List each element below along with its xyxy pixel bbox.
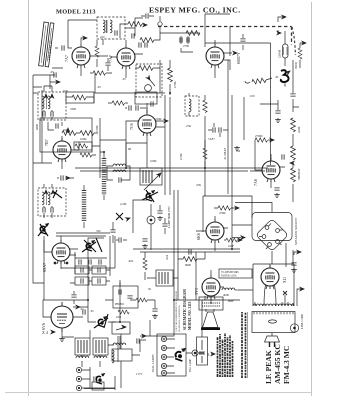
box around V8: [203, 196, 252, 232]
arrow into socket: [232, 237, 241, 239]
cap X: [283, 291, 287, 295]
coil box windings: [159, 272, 168, 284]
svg-text:7C6: 7C6: [129, 123, 134, 130]
speaker socket diamond: [256, 219, 289, 252]
resistor R4 vertical 39000: [298, 48, 302, 59]
capacitor C8: [187, 37, 189, 42]
capacitor C11: [129, 105, 131, 110]
bus pair y233: [56, 233, 110, 236]
wire R26: [96, 40, 98, 67]
vertical pair x174-178: [174, 190, 178, 300]
output transformer box T2b: [93, 338, 108, 355]
wire C34: [107, 58, 109, 71]
switch S3 blob center: [146, 191, 155, 202]
volume pot arrow: [146, 76, 151, 81]
ground G8: [152, 314, 158, 318]
capacitor C28: [94, 376, 96, 381]
cylinder inner: [284, 47, 288, 55]
svg-text:I.F. PEAK: I.F. PEAK: [264, 350, 273, 384]
IF can Z2 dashed right: [185, 96, 199, 116]
capacitor C27: [83, 309, 85, 314]
resistor R6: [72, 95, 86, 100]
arrow V4: [66, 128, 69, 132]
switch S5 blob bottom: [96, 374, 105, 385]
small circle top: [158, 22, 162, 26]
capacitor cluster C22: [99, 259, 101, 264]
svg-text:X 4: X 4: [42, 330, 48, 335]
page edge right: [311, 2, 313, 396]
wire top center: [120, 18, 160, 40]
wire V7: [255, 140, 285, 188]
wire V4 cluster: [48, 122, 98, 169]
tuning coil L4 hatched: [102, 158, 107, 195]
svg-text:.05: .05: [122, 77, 126, 81]
winding row below T2b: [94, 356, 107, 358]
capacitor C25: [291, 263, 296, 265]
wire caps V5: [125, 103, 147, 113]
capacitor C4: [139, 42, 141, 47]
svg-text:.01: .01: [80, 307, 84, 311]
loop antenna L1: [39, 22, 54, 67]
svg-text:47K: 47K: [196, 183, 202, 187]
resistor R14: [203, 100, 207, 113]
svg-text:6SA7: 6SA7: [42, 263, 47, 272]
ground G6: [59, 337, 65, 341]
OT windings: [202, 300, 220, 306]
capacitor C17: [282, 154, 284, 159]
capacitor C24: [142, 239, 147, 241]
wire T-osc: [95, 20, 135, 45]
X marks cluster: [116, 213, 123, 220]
trimmer caps inside 2: [81, 278, 83, 283]
wire tone: [121, 334, 140, 355]
arrow tuning R1: [143, 23, 147, 26]
wire plug: [271, 333, 273, 337]
wire lamps: [167, 339, 204, 373]
arrow V3: [233, 51, 237, 54]
wire socket right drops: [286, 243, 293, 267]
svg-text:LAMP TRIM 2700: LAMP TRIM 2700: [168, 206, 171, 228]
resistor R25: [203, 148, 207, 159]
resistor R26 vertical: [95, 46, 99, 57]
resistor R3: [186, 31, 200, 36]
small cap top center: [146, 13, 148, 18]
svg-text:220: 220: [100, 35, 105, 39]
socket pin ticks: [259, 224, 283, 250]
resistor R12 470K: [112, 101, 125, 105]
wire C23: [159, 205, 161, 210]
wires trimmer field: [70, 236, 110, 283]
svg-text:100: 100: [250, 94, 255, 98]
tube V6 6SA7: [52, 240, 70, 264]
svg-text:1MF: 1MF: [228, 244, 234, 248]
IF Z1 arrows: [44, 94, 47, 98]
wire C32: [57, 177, 74, 179]
junction dots: [87, 92, 233, 323]
box bottom small: [92, 382, 104, 390]
svg-text:LINE CORD: LINE CORD: [301, 314, 304, 329]
wire R19: [144, 252, 146, 280]
capacitor C33: [151, 101, 153, 106]
box trimmer row 3: [75, 277, 89, 285]
wire V10 V11: [211, 270, 253, 304]
svg-text:220MF: 220MF: [279, 49, 282, 58]
svg-text:7AF7: 7AF7: [208, 137, 215, 141]
tube V2 7A7 IF: [117, 45, 135, 69]
wire L6: [83, 185, 85, 228]
main wire bus J: [231, 195, 233, 249]
svg-text:1M: 1M: [236, 149, 241, 153]
resistor R10: [80, 153, 92, 157]
small arrows left: [56, 80, 60, 83]
wire V9 bottom: [62, 317, 83, 337]
bus y93: [33, 75, 55, 163]
capacitor C35: [189, 249, 191, 254]
svg-text:100K: 100K: [80, 137, 88, 141]
resistor R22 6800: [183, 257, 197, 262]
capacitor C18: [274, 188, 279, 190]
wire V5: [126, 107, 165, 143]
wire caps center: [208, 123, 228, 137]
IF Z3 wires: [44, 184, 52, 218]
main wire bus E: [61, 236, 115, 268]
resistor R17 vertical chain: [291, 146, 296, 160]
tuning coil L6 hatched: [82, 190, 87, 222]
wire R13: [169, 60, 171, 95]
svg-text:27K: 27K: [186, 124, 192, 128]
notes list block rotated: [218, 333, 233, 377]
resistor R19: [143, 258, 147, 270]
arrow cluster: [126, 216, 131, 221]
wire right top: [278, 30, 300, 68]
main wire bus B: [100, 140, 126, 152]
resistor R20: [218, 206, 231, 210]
capacitor C10: [54, 72, 56, 77]
switch S1 arms: [38, 224, 48, 236]
svg-text:AM: AM: [165, 255, 169, 260]
main wire bus H: [205, 168, 240, 300]
svg-text:NOTED ±10%: NOTED ±10%: [221, 275, 237, 278]
wire top right col: [292, 60, 294, 107]
tube V4 7B7: [53, 138, 71, 162]
main wire bus M: [84, 361, 121, 390]
capacitor C34: [105, 63, 110, 65]
long bus y168/171: [75, 168, 250, 171]
svg-text:4000: 4000: [223, 293, 230, 297]
svg-text:AM-455 KC: AM-455 KC: [273, 344, 282, 384]
IF Z1 wires: [44, 86, 52, 120]
AVC dashed bus: [158, 27, 292, 46]
wire V1 V2 plate link: [90, 55, 108, 57]
capacitor C3: [132, 33, 134, 38]
ground G4: [142, 244, 148, 248]
main wire bus G: [119, 280, 121, 349]
resistor R16 horizontal: [255, 138, 268, 142]
note box 5% resistors: [219, 269, 252, 278]
wire R25: [204, 140, 206, 168]
svg-text:SCHEMATIC DIAGRAM: SCHEMATIC DIAGRAM: [183, 289, 187, 330]
wire osc coil: [245, 78, 272, 83]
box trimmer row 4: [92, 277, 106, 285]
wire S4: [88, 300, 116, 322]
AC switch inner: [199, 340, 205, 363]
jack J2: [76, 376, 81, 381]
small circles pins V6: [54, 262, 56, 264]
svg-text:117V: 117V: [136, 372, 143, 376]
arrow R16: [270, 138, 274, 141]
switch S3 arms: [142, 190, 158, 202]
capacitor C15: [219, 127, 221, 132]
resistor R15 vertical: [291, 118, 296, 132]
svg-text:NO SIGNAL CONDITION: NO SIGNAL CONDITION: [178, 305, 181, 332]
variable capacitor tuning blob: [281, 70, 289, 82]
ground G1: [275, 118, 281, 122]
svg-text:50: 50: [148, 287, 152, 291]
vertical x244: [243, 97, 245, 140]
svg-text:MODEL 2113: MODEL 2113: [56, 9, 96, 16]
wire S3: [133, 200, 151, 250]
svg-text:2700: 2700: [183, 44, 190, 48]
page edge bottom: [5, 392, 311, 394]
capacitor cluster C21: [89, 259, 91, 264]
jack J3: [76, 385, 81, 390]
IF transformer Z1 dashed can: [38, 92, 66, 120]
arrow R21: [238, 238, 242, 241]
tube V3 6SB7 converter: [206, 44, 224, 68]
arrow X4: [51, 330, 55, 333]
switch S2 blob: [86, 241, 95, 252]
capacitor C30: [119, 237, 121, 242]
vertical bus pair x228-232: [228, 60, 232, 195]
wire R14: [204, 95, 206, 168]
AC plug: [265, 336, 280, 347]
wire V9 top: [43, 291, 88, 317]
wire transformer cluster: [82, 330, 118, 367]
socket pins: [265, 226, 269, 230]
capacitor C23: [157, 211, 162, 213]
svg-text:BAL LAMP: BAL LAMP: [189, 358, 192, 372]
svg-text:8MF: 8MF: [228, 299, 234, 303]
wire socket bottom: [271, 251, 273, 264]
svg-text:ESPEY MFG. CO., INC.: ESPEY MFG. CO., INC.: [149, 6, 241, 15]
main wire bus C: [125, 143, 127, 168]
pilot box caps: [119, 289, 121, 294]
svg-text:470K: 470K: [173, 81, 177, 89]
wire L4: [103, 152, 105, 200]
svg-text:.002: .002: [128, 259, 134, 263]
trimmer caps inside: [81, 267, 83, 272]
box below tone: [112, 349, 132, 361]
resistor R11: [93, 71, 106, 75]
L5 hatches: [143, 170, 152, 183]
svg-text:220K: 220K: [155, 117, 163, 121]
wire V2: [110, 40, 143, 78]
main wire bus A: [33, 60, 165, 93]
svg-text:.01 SHAF: .01 SHAF: [223, 147, 227, 160]
capacitor C36: [162, 224, 167, 226]
IF Z3 winding A: [42, 192, 50, 205]
transformer core oval: [269, 320, 277, 323]
wire antenna to V1: [52, 48, 63, 68]
wire chain: [292, 144, 294, 192]
ground G3: [157, 216, 163, 220]
arrow tuning cap: [286, 70, 291, 75]
arrow V5: [164, 119, 168, 122]
box B1 around V4: [40, 118, 92, 152]
wire R22: [178, 252, 205, 259]
wire R6: [66, 93, 94, 103]
capacitor C12: [136, 105, 138, 110]
bus y249-252: [133, 249, 240, 252]
arrow chain: [290, 161, 294, 164]
capacitor C16: [275, 111, 280, 113]
resistor R27: [136, 298, 147, 302]
svg-text:.05: .05: [97, 85, 101, 89]
wire C16: [260, 100, 278, 110]
capacitor C31: [110, 230, 115, 232]
wire C36: [164, 218, 166, 234]
speaker bar: [201, 327, 220, 330]
ground G5: [291, 268, 297, 272]
wire coil box: [147, 277, 178, 279]
svg-text:10K: 10K: [63, 89, 69, 93]
wire cluster: [113, 222, 127, 243]
capacitor C6: [240, 39, 245, 41]
resistor R21 audio: [226, 238, 237, 242]
dashed step down: [292, 27, 296, 55]
dial lamp strip box: [157, 334, 186, 376]
ground G2: [274, 193, 280, 197]
svg-text:6800: 6800: [185, 263, 192, 267]
tube V10 5Y3 rect: [202, 275, 220, 299]
resistor R8: [80, 131, 94, 136]
jack J1: [76, 367, 81, 372]
svg-text:39000: 39000: [295, 61, 298, 69]
svg-text:X13: X13: [283, 277, 287, 283]
circuit breaker CB circle: [290, 324, 298, 332]
svg-text:150K: 150K: [95, 125, 99, 133]
switch S4 blob: [98, 317, 107, 328]
wire R12: [108, 102, 128, 104]
svg-text:27000: 27000: [255, 134, 263, 138]
capacitor C9: [56, 123, 58, 128]
svg-text:6K6: 6K6: [196, 233, 201, 240]
svg-text:TRIPLE: TRIPLE: [297, 169, 301, 181]
capacitor C2 trimmer: [115, 30, 117, 35]
tube V5 7C6 det: [138, 112, 156, 136]
tube V11 legs: [264, 285, 276, 306]
wire V8: [196, 216, 228, 251]
volume pot resistor: [139, 66, 153, 71]
power transformer box: [252, 312, 295, 333]
wire right of box: [92, 118, 100, 178]
T2b windings: [96, 340, 105, 353]
capacitor C-osc cylinder: [283, 44, 289, 58]
svg-text:MODEL NO. 2113: MODEL NO. 2113: [188, 301, 192, 330]
wire transformer: [255, 302, 293, 306]
IF Z1 winding A: [42, 96, 50, 109]
main wire bus F: [88, 238, 104, 300]
switch S6 blob: [175, 348, 185, 361]
AC switch box: [197, 337, 208, 365]
switch S4 arms: [94, 314, 108, 328]
capacitor C32: [61, 175, 63, 180]
switch S1 blob: [40, 224, 49, 235]
resistor R7: [62, 131, 76, 136]
wire R27: [130, 299, 155, 301]
arrow V1 grid: [83, 36, 87, 39]
wire jacks: [82, 367, 115, 388]
resistor R23 4000 coil row: [222, 288, 238, 290]
svg-text:PHONO: PHONO: [115, 303, 124, 306]
IF Z1 caps: [43, 111, 45, 116]
circle dot: [150, 219, 152, 221]
wire antenna right: [242, 34, 244, 50]
wire mid top: [160, 33, 200, 52]
dashed bus elbow arrow: [278, 17, 284, 22]
resistor R9 in box: [74, 142, 92, 150]
svg-text:7B7: 7B7: [44, 139, 49, 146]
svg-text:2200: 2200: [116, 316, 122, 319]
jack J4: [192, 350, 198, 356]
corner hook: [293, 107, 299, 144]
capacitor C26 top: [71, 295, 76, 297]
page edge left: [28, 0, 30, 396]
main wire bus K: [292, 192, 294, 202]
resistor box R6: [66, 92, 94, 103]
wire grid V1: [68, 20, 95, 76]
coil L3 loops: [113, 164, 126, 172]
box trimmer row 2: [92, 266, 106, 274]
svg-text:470K: 470K: [219, 211, 227, 215]
arrow X4 right: [211, 352, 215, 355]
IF Z3 caps: [43, 207, 45, 212]
vertical bus pair x165-170: [165, 95, 170, 195]
capacitor C14: [213, 127, 215, 132]
resistor R1: [128, 22, 142, 27]
svg-text:2.2M: 2.2M: [120, 202, 127, 206]
ground G7: [234, 146, 240, 150]
wire V9 corner: [43, 283, 45, 300]
capacitor C5: [145, 42, 147, 47]
capacitor C13: [119, 177, 121, 182]
resistor R9 zig: [75, 144, 88, 148]
svg-text:7A7: 7A7: [64, 55, 69, 62]
svg-text:6V6: 6V6: [41, 323, 46, 330]
power transformer winding row: [253, 304, 294, 306]
wire under V5: [126, 143, 147, 168]
wire C37: [154, 300, 156, 308]
main wire bus I: [174, 299, 205, 301]
transformer T-osc dashed box: [97, 17, 125, 39]
svg-text:7A7: 7A7: [108, 55, 113, 62]
transformer T-osc windings: [103, 20, 112, 33]
volume pot circle: [145, 85, 152, 92]
arrow right col: [297, 289, 301, 293]
L5 arrow diagonal: [144, 174, 160, 190]
wire vol: [135, 67, 160, 69]
tone arrow: [122, 325, 126, 328]
wire pilot: [105, 282, 120, 300]
arrow V9 grid: [76, 305, 80, 308]
resistor R13 vertical 470K: [168, 68, 173, 82]
notes underlined pair rotated: [242, 312, 246, 378]
wire center drop: [146, 300, 174, 336]
svg-text:470K: 470K: [179, 153, 183, 161]
svg-text:5Y3: 5Y3: [194, 288, 199, 295]
output transformer box T2a: [75, 338, 90, 355]
main wire bus L: [140, 340, 146, 352]
